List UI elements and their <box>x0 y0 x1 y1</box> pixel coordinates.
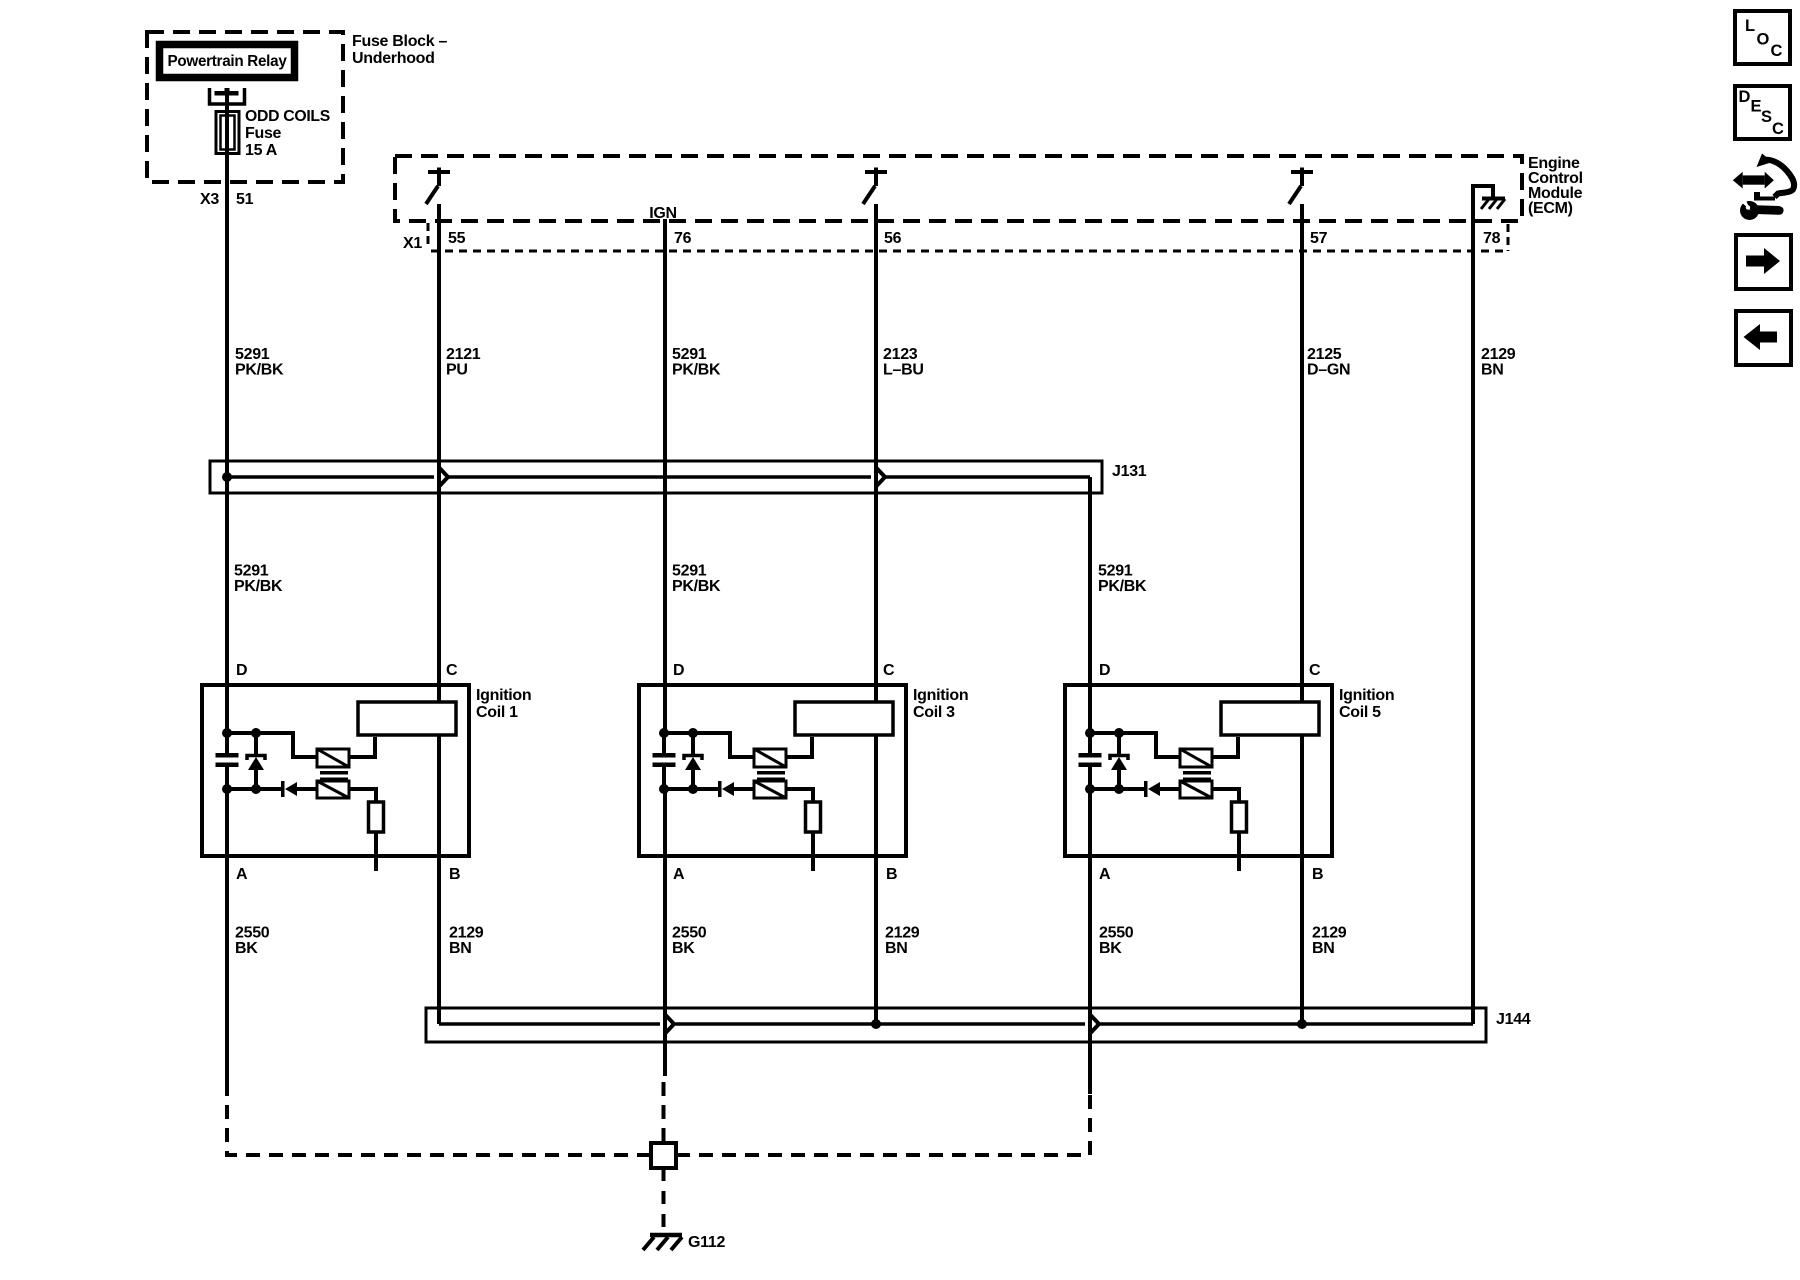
svg-text:BK: BK <box>672 940 695 957</box>
svg-text:2550: 2550 <box>672 925 707 942</box>
svg-text:Ignition: Ignition <box>913 687 968 704</box>
svg-text:X1: X1 <box>403 235 422 252</box>
coil 3 resistor <box>806 802 821 832</box>
svg-text:2129: 2129 <box>1481 346 1516 363</box>
coil 3 internal node wires <box>664 733 754 757</box>
engine control module ECM dashed box <box>395 156 1522 221</box>
svg-text:2129: 2129 <box>885 925 920 942</box>
svg-text:L: L <box>1745 17 1755 35</box>
coil 3 core bars <box>757 771 785 775</box>
svg-text:2123: 2123 <box>883 346 918 363</box>
svg-text:E: E <box>1751 98 1762 116</box>
svg-text:D: D <box>1739 88 1751 106</box>
coil 3 junction dots <box>659 728 669 738</box>
wire 2550 BK coil5 A <box>1088 789 1092 1094</box>
svg-text:L–BU: L–BU <box>883 362 924 379</box>
svg-text:5291: 5291 <box>672 346 707 363</box>
coil 3 diode <box>718 781 722 797</box>
wire 5291 PK/BK fuse to coil1 D <box>225 91 229 733</box>
svg-text:A: A <box>1099 866 1111 883</box>
svg-text:C: C <box>1771 42 1783 60</box>
connector X1 sub-box <box>427 223 430 249</box>
svg-text:Coil 3: Coil 3 <box>913 704 955 721</box>
svg-text:PU: PU <box>446 362 468 379</box>
icon arrow right box <box>1736 235 1791 289</box>
svg-text:PK/BK: PK/BK <box>1098 578 1147 595</box>
svg-text:O: O <box>1757 31 1770 49</box>
coil 1 driver box upper <box>317 749 349 767</box>
splice pack J144 <box>426 1008 1486 1042</box>
svg-text:G112: G112 <box>688 1234 725 1251</box>
svg-text:15 A: 15 A <box>245 142 278 159</box>
coil 5 secondary winding block <box>1221 702 1319 735</box>
wire 2129 BN coil3 B to J144 <box>874 735 878 1024</box>
coil 5 internal node wires <box>1090 733 1180 757</box>
coil 5 zener diode <box>1117 733 1121 756</box>
svg-text:PK/BK: PK/BK <box>672 578 721 595</box>
svg-text:51: 51 <box>236 191 254 208</box>
svg-text:C: C <box>883 662 895 679</box>
svg-text:PK/BK: PK/BK <box>235 362 284 379</box>
wire J131 to coil5 D <box>1088 477 1092 733</box>
dashed ground wire coil1 A to G112 node <box>227 1092 651 1155</box>
svg-text:BK: BK <box>235 940 258 957</box>
ground node square <box>651 1143 676 1168</box>
ECM driver symbol pin at x=876 <box>865 170 887 174</box>
svg-text:2550: 2550 <box>1099 925 1134 942</box>
coil 1 secondary winding block <box>358 702 456 735</box>
svg-text:2550: 2550 <box>235 925 270 942</box>
wire 5291 PK/BK pin76 IGN to coil3 D <box>663 219 667 733</box>
coil 3 capacitor <box>662 733 666 753</box>
svg-text:Underhood: Underhood <box>352 50 435 67</box>
svg-text:C: C <box>446 662 458 679</box>
svg-text:Coil 5: Coil 5 <box>1339 704 1381 721</box>
icon LOC box <box>1735 11 1790 64</box>
coil 1 core bars <box>320 771 348 775</box>
fuse ODD COILS 15 A symbol <box>216 112 239 154</box>
svg-text:B: B <box>449 866 460 883</box>
coil 1 driver box lower <box>317 781 349 798</box>
wire 2129 BN pin78 to J144 <box>1471 221 1475 1024</box>
relay contact symbol <box>210 88 245 104</box>
coil 3 secondary winding block <box>795 702 893 735</box>
wire 2123 L-BU pin56 to coil3 C <box>874 204 878 702</box>
J144 junction dot coil3 B <box>871 1019 881 1029</box>
svg-text:D: D <box>236 662 247 679</box>
svg-text:BN: BN <box>449 940 472 957</box>
coil 5 driver box upper <box>1180 749 1212 767</box>
J144 junction dot coil5 B <box>1297 1019 1307 1029</box>
wire 2550 BK coil3 A <box>663 789 667 1076</box>
svg-text:D: D <box>1099 662 1110 679</box>
wire 2129 BN coil1 B to J144 <box>437 735 441 1024</box>
coil 3 driver box lower <box>754 781 786 798</box>
svg-text:55: 55 <box>448 230 466 247</box>
coil 1 diode <box>281 781 285 797</box>
svg-text:56: 56 <box>884 230 902 247</box>
J144 pass-through chevron at x=1090 <box>1091 1015 1100 1033</box>
svg-text:S: S <box>1761 108 1772 126</box>
ECM driver symbol pin at x=439 <box>428 170 450 174</box>
svg-text:2129: 2129 <box>1312 925 1347 942</box>
svg-text:2125: 2125 <box>1307 346 1342 363</box>
svg-text:5291: 5291 <box>234 563 269 580</box>
svg-text:Coil 1: Coil 1 <box>476 704 518 721</box>
svg-text:Ignition: Ignition <box>1339 687 1394 704</box>
dashed wire node to G112 ground <box>662 1168 666 1233</box>
J144 internal bus <box>439 1022 1473 1026</box>
dashed ground wire coil3 A to G112 node <box>662 1076 666 1142</box>
ignition coil 5 box <box>1065 685 1332 856</box>
wire 2125 D-GN pin57 to coil5 C <box>1300 204 1304 702</box>
svg-text:BN: BN <box>1481 362 1504 379</box>
junction dot J131 at 5291 <box>222 472 232 482</box>
icon shift glove with arrows <box>1733 154 1794 221</box>
wire 2121 PU pin55 to coil1 C <box>437 204 441 702</box>
svg-text:BN: BN <box>1312 940 1335 957</box>
svg-text:PK/BK: PK/BK <box>672 362 721 379</box>
svg-text:B: B <box>886 866 897 883</box>
svg-text:Fuse: Fuse <box>245 125 282 142</box>
powertrain relay K box <box>160 45 295 78</box>
svg-text:(ECM): (ECM) <box>1528 200 1573 217</box>
svg-text:PK/BK: PK/BK <box>234 578 283 595</box>
svg-text:BN: BN <box>885 940 908 957</box>
ground G112 symbol <box>650 1233 682 1238</box>
dashed ground wire coil5 A to G112 node <box>676 1094 1090 1155</box>
svg-text:D: D <box>673 662 684 679</box>
svg-text:A: A <box>673 866 685 883</box>
svg-text:BK: BK <box>1099 940 1122 957</box>
coil 5 junction dots <box>1085 728 1095 738</box>
ECM internal ground pin 78 <box>1473 186 1493 221</box>
ignition coil 3 box <box>639 685 906 856</box>
coil 5 core bars <box>1183 771 1211 775</box>
coil 3 driver box upper <box>754 749 786 767</box>
J131 pass-through chevron at x=439 <box>440 468 449 486</box>
coil 1 capacitor <box>225 733 229 753</box>
wire 2129 BN coil5 B to J144 <box>1300 735 1304 1024</box>
ignition coil 1 box <box>202 685 469 856</box>
svg-text:D–GN: D–GN <box>1307 362 1350 379</box>
svg-text:A: A <box>236 866 248 883</box>
icon arrow left box <box>1736 311 1791 365</box>
svg-text:Powertrain Relay: Powertrain Relay <box>168 53 287 70</box>
svg-text:J131: J131 <box>1112 463 1147 480</box>
icon DESC box <box>1735 86 1790 139</box>
svg-text:5291: 5291 <box>235 346 270 363</box>
coil 1 resistor <box>369 802 384 832</box>
svg-text:Ignition: Ignition <box>476 687 531 704</box>
coil 5 resistor <box>1232 802 1247 832</box>
svg-text:57: 57 <box>1310 230 1328 247</box>
svg-text:78: 78 <box>1483 230 1501 247</box>
svg-text:Fuse Block –: Fuse Block – <box>352 33 448 50</box>
coil 5 driver box lower <box>1180 781 1212 798</box>
svg-text:X3: X3 <box>200 191 219 208</box>
J144 pass-through chevron at x=665 <box>666 1015 675 1033</box>
svg-text:C: C <box>1772 120 1784 138</box>
coil 1 internal node wires <box>227 733 317 757</box>
svg-text:5291: 5291 <box>1098 563 1133 580</box>
wire 2550 BK coil1 A <box>225 789 229 1092</box>
svg-text:5291: 5291 <box>672 563 707 580</box>
coil 5 diode <box>1144 781 1148 797</box>
svg-text:2129: 2129 <box>449 925 484 942</box>
svg-text:C: C <box>1309 662 1321 679</box>
J131 internal bus <box>227 475 1090 479</box>
fuse block underhood dashed box <box>147 32 343 182</box>
J131 pass-through chevron at x=876 <box>877 468 886 486</box>
svg-text:76: 76 <box>674 230 692 247</box>
svg-text:J144: J144 <box>1496 1011 1531 1028</box>
coil 1 junction dots <box>222 728 232 738</box>
svg-text:2121: 2121 <box>446 346 481 363</box>
svg-text:ODD COILS: ODD COILS <box>245 108 331 125</box>
coil 3 zener diode <box>691 733 695 756</box>
svg-text:B: B <box>1312 866 1323 883</box>
coil 1 zener diode <box>254 733 258 756</box>
splice pack J131 <box>210 461 1102 493</box>
coil 5 capacitor <box>1088 733 1092 753</box>
ECM driver symbol pin at x=1302 <box>1291 170 1313 174</box>
